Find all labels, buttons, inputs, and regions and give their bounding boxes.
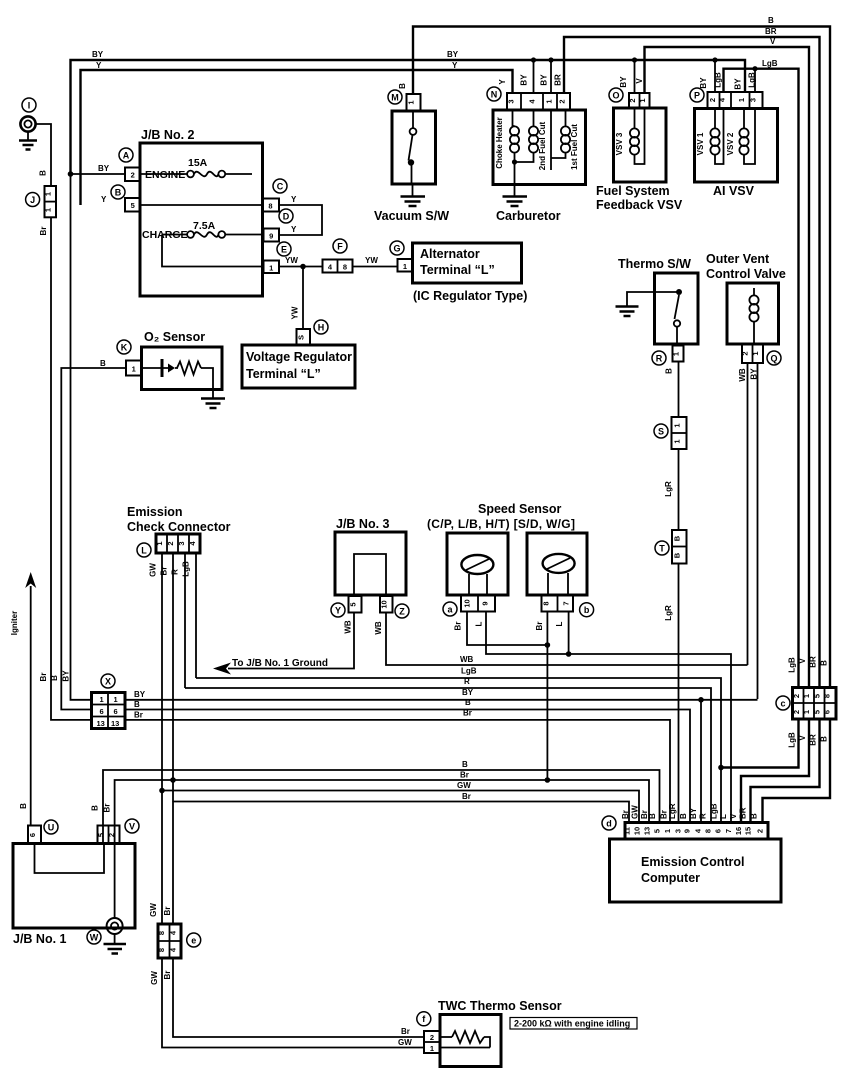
svg-text:15A: 15A bbox=[188, 157, 208, 169]
svg-text:BR: BR bbox=[554, 74, 563, 86]
svg-text:Y: Y bbox=[101, 195, 107, 204]
svg-text:1: 1 bbox=[155, 541, 164, 545]
svg-text:T: T bbox=[659, 543, 665, 553]
svg-text:6: 6 bbox=[714, 829, 723, 833]
svg-text:BY: BY bbox=[447, 50, 459, 59]
svg-text:Fuel System: Fuel System bbox=[596, 184, 670, 198]
svg-text:6: 6 bbox=[28, 833, 37, 837]
svg-text:I: I bbox=[28, 100, 31, 110]
svg-text:WB: WB bbox=[738, 368, 747, 382]
svg-text:8: 8 bbox=[268, 202, 272, 211]
svg-text:L: L bbox=[719, 814, 728, 819]
svg-text:9: 9 bbox=[481, 601, 490, 605]
svg-text:J/B No. 3: J/B No. 3 bbox=[336, 517, 390, 531]
svg-text:Y: Y bbox=[291, 225, 297, 234]
svg-text:VSV 1: VSV 1 bbox=[696, 132, 705, 155]
svg-text:1st Fuel Cut: 1st Fuel Cut bbox=[570, 124, 579, 170]
svg-text:Speed Sensor: Speed Sensor bbox=[478, 502, 561, 516]
svg-text:U: U bbox=[48, 822, 55, 832]
svg-text:Br: Br bbox=[460, 771, 469, 780]
svg-text:5: 5 bbox=[96, 833, 105, 837]
svg-text:10: 10 bbox=[633, 827, 642, 835]
svg-text:13: 13 bbox=[97, 719, 105, 728]
svg-text:d: d bbox=[606, 818, 612, 828]
svg-text:1: 1 bbox=[407, 100, 416, 104]
svg-text:1: 1 bbox=[737, 98, 746, 102]
svg-text:Y: Y bbox=[96, 61, 102, 70]
svg-text:1: 1 bbox=[44, 192, 53, 196]
svg-text:WB: WB bbox=[344, 620, 353, 634]
svg-text:Y: Y bbox=[498, 79, 507, 85]
svg-text:5: 5 bbox=[653, 829, 662, 833]
svg-text:Emission Control: Emission Control bbox=[641, 855, 744, 869]
svg-text:BY: BY bbox=[134, 690, 146, 699]
svg-text:7: 7 bbox=[562, 601, 571, 605]
svg-text:J: J bbox=[30, 195, 35, 205]
svg-text:2: 2 bbox=[131, 171, 135, 180]
svg-text:1: 1 bbox=[673, 439, 682, 443]
svg-text:1: 1 bbox=[100, 695, 104, 704]
svg-text:1: 1 bbox=[269, 264, 273, 273]
svg-text:L: L bbox=[555, 621, 564, 626]
svg-text:8: 8 bbox=[823, 694, 832, 698]
svg-text:V: V bbox=[770, 37, 776, 46]
svg-text:B: B bbox=[91, 805, 100, 811]
svg-text:Choke Heater: Choke Heater bbox=[495, 117, 504, 169]
svg-text:D: D bbox=[283, 211, 290, 221]
svg-text:Terminal “L”: Terminal “L” bbox=[246, 367, 321, 381]
svg-text:GW: GW bbox=[398, 1038, 412, 1047]
svg-text:5: 5 bbox=[349, 602, 358, 606]
svg-text:1: 1 bbox=[672, 352, 681, 356]
svg-text:R: R bbox=[171, 569, 180, 575]
svg-text:BR: BR bbox=[809, 656, 818, 668]
svg-text:2: 2 bbox=[792, 710, 801, 714]
svg-text:5: 5 bbox=[131, 201, 135, 210]
svg-text:BY: BY bbox=[520, 74, 529, 86]
svg-text:2: 2 bbox=[792, 694, 801, 698]
svg-text:B: B bbox=[648, 813, 657, 819]
svg-text:e: e bbox=[191, 935, 196, 945]
svg-text:LgB: LgB bbox=[788, 732, 797, 748]
svg-text:BR: BR bbox=[765, 27, 777, 36]
svg-text:B: B bbox=[750, 813, 759, 819]
svg-text:BY: BY bbox=[98, 164, 110, 173]
svg-text:BY: BY bbox=[699, 77, 708, 89]
svg-text:3: 3 bbox=[674, 829, 683, 833]
svg-text:1: 1 bbox=[114, 695, 118, 704]
svg-text:VSV 2: VSV 2 bbox=[726, 132, 735, 155]
svg-text:M: M bbox=[391, 92, 399, 102]
svg-text:B: B bbox=[679, 813, 688, 819]
svg-text:6: 6 bbox=[114, 707, 118, 716]
svg-text:V: V bbox=[729, 813, 738, 819]
svg-text:1: 1 bbox=[802, 710, 811, 714]
svg-text:V: V bbox=[635, 78, 644, 84]
svg-text:Y: Y bbox=[335, 605, 341, 615]
svg-text:11: 11 bbox=[623, 827, 632, 835]
svg-text:BY: BY bbox=[462, 688, 474, 697]
svg-text:Check Connector: Check Connector bbox=[127, 520, 231, 534]
svg-text:3: 3 bbox=[177, 541, 186, 545]
svg-text:5: 5 bbox=[812, 710, 821, 714]
svg-text:GW: GW bbox=[457, 781, 471, 790]
svg-text:15: 15 bbox=[744, 827, 753, 835]
svg-text:V: V bbox=[129, 821, 135, 831]
svg-text:BY: BY bbox=[689, 807, 698, 819]
svg-text:G: G bbox=[393, 243, 400, 253]
svg-text:(C/P, L/B, H/T) [S/D, W/G]: (C/P, L/B, H/T) [S/D, W/G] bbox=[427, 517, 575, 531]
svg-text:Q: Q bbox=[770, 353, 777, 363]
svg-text:B: B bbox=[665, 368, 674, 374]
svg-text:BY: BY bbox=[619, 76, 628, 88]
svg-text:2nd Fuel Cut: 2nd Fuel Cut bbox=[538, 121, 547, 170]
svg-text:9: 9 bbox=[269, 232, 273, 241]
svg-text:Voltage Regulator: Voltage Regulator bbox=[246, 350, 352, 364]
svg-text:B: B bbox=[820, 736, 829, 742]
svg-text:BY: BY bbox=[734, 78, 743, 90]
svg-text:Br: Br bbox=[463, 709, 472, 718]
svg-text:Feedback VSV: Feedback VSV bbox=[596, 198, 683, 212]
svg-text:Br: Br bbox=[462, 792, 471, 801]
svg-text:2: 2 bbox=[107, 833, 116, 837]
svg-text:10: 10 bbox=[380, 600, 389, 608]
svg-text:S: S bbox=[658, 426, 664, 436]
svg-text:J/B No. 2: J/B No. 2 bbox=[141, 128, 195, 142]
svg-text:R: R bbox=[656, 353, 663, 363]
svg-text:W: W bbox=[90, 932, 99, 942]
svg-text:O₂ Sensor: O₂ Sensor bbox=[144, 330, 205, 344]
svg-text:LgR: LgR bbox=[668, 803, 677, 819]
svg-text:8: 8 bbox=[157, 948, 166, 952]
svg-text:AI VSV: AI VSV bbox=[713, 184, 755, 198]
svg-text:F: F bbox=[337, 241, 343, 251]
svg-text:2: 2 bbox=[708, 98, 717, 102]
svg-text:BY: BY bbox=[92, 50, 104, 59]
svg-text:Carburetor: Carburetor bbox=[496, 209, 561, 223]
svg-text:8: 8 bbox=[157, 931, 166, 935]
svg-text:Emission: Emission bbox=[127, 505, 183, 519]
svg-text:(IC Regulator Type): (IC Regulator Type) bbox=[413, 289, 527, 303]
svg-text:YW: YW bbox=[291, 306, 300, 319]
svg-text:5: 5 bbox=[812, 694, 821, 698]
svg-text:LgR: LgR bbox=[664, 481, 673, 497]
svg-text:GW: GW bbox=[631, 805, 640, 819]
svg-text:TWC Thermo Sensor: TWC Thermo Sensor bbox=[438, 999, 562, 1013]
svg-text:B: B bbox=[398, 83, 407, 89]
svg-text:B: B bbox=[465, 698, 471, 707]
svg-text:1: 1 bbox=[132, 365, 136, 374]
svg-text:3: 3 bbox=[749, 98, 758, 102]
svg-text:BY: BY bbox=[62, 670, 71, 682]
svg-text:2-200 kΩ with engine idling: 2-200 kΩ with engine idling bbox=[514, 1019, 630, 1029]
svg-text:WB: WB bbox=[460, 655, 474, 664]
svg-text:LgB: LgB bbox=[748, 72, 757, 88]
svg-text:1: 1 bbox=[751, 351, 760, 355]
svg-text:LgB: LgB bbox=[461, 667, 477, 676]
svg-text:8: 8 bbox=[542, 601, 551, 605]
svg-text:BY: BY bbox=[540, 74, 549, 86]
svg-text:C: C bbox=[277, 181, 284, 191]
svg-text:Control Valve: Control Valve bbox=[706, 267, 786, 281]
svg-text:GW: GW bbox=[149, 563, 158, 577]
svg-text:GW: GW bbox=[149, 903, 158, 917]
svg-text:LgB: LgB bbox=[714, 72, 723, 88]
svg-text:Alternator: Alternator bbox=[420, 247, 480, 261]
svg-text:LgB: LgB bbox=[182, 561, 191, 577]
svg-text:Br: Br bbox=[535, 622, 544, 631]
svg-text:Z: Z bbox=[399, 606, 405, 616]
svg-text:GW: GW bbox=[150, 971, 159, 985]
svg-text:Br: Br bbox=[621, 810, 630, 819]
svg-text:1: 1 bbox=[545, 99, 554, 103]
svg-text:B: B bbox=[134, 700, 140, 709]
svg-text:L: L bbox=[141, 545, 147, 555]
svg-text:c: c bbox=[780, 698, 785, 708]
svg-text:1: 1 bbox=[673, 423, 682, 427]
svg-text:1: 1 bbox=[663, 829, 672, 833]
svg-text:B: B bbox=[39, 170, 48, 176]
svg-text:2: 2 bbox=[430, 1033, 434, 1042]
svg-text:B: B bbox=[673, 535, 682, 541]
svg-text:Computer: Computer bbox=[641, 871, 700, 885]
svg-text:Br: Br bbox=[39, 673, 48, 682]
svg-text:B: B bbox=[115, 187, 122, 197]
svg-text:H: H bbox=[318, 322, 325, 332]
svg-text:2: 2 bbox=[756, 829, 765, 833]
svg-text:3: 3 bbox=[507, 99, 516, 103]
svg-text:Y: Y bbox=[452, 61, 458, 70]
svg-text:ENGINE: ENGINE bbox=[145, 169, 185, 181]
svg-text:B: B bbox=[673, 552, 682, 558]
svg-text:7: 7 bbox=[724, 829, 733, 833]
svg-text:Igniter: Igniter bbox=[10, 611, 19, 635]
svg-text:E: E bbox=[281, 244, 287, 254]
svg-text:Br: Br bbox=[163, 971, 172, 980]
svg-text:K: K bbox=[121, 342, 128, 352]
svg-text:Y: Y bbox=[291, 195, 297, 204]
svg-text:Br: Br bbox=[163, 907, 172, 916]
svg-text:6: 6 bbox=[100, 707, 104, 716]
svg-text:LgR: LgR bbox=[664, 605, 673, 621]
svg-text:Terminal “L”: Terminal “L” bbox=[420, 263, 495, 277]
svg-text:Br: Br bbox=[401, 1027, 410, 1036]
svg-text:13: 13 bbox=[643, 827, 652, 835]
svg-text:S: S bbox=[297, 335, 306, 340]
svg-text:LgB: LgB bbox=[788, 657, 797, 673]
svg-text:Br: Br bbox=[160, 567, 169, 576]
svg-text:O: O bbox=[612, 90, 619, 100]
svg-text:16: 16 bbox=[734, 827, 743, 835]
svg-text:1: 1 bbox=[430, 1044, 434, 1053]
svg-text:B: B bbox=[768, 16, 774, 25]
svg-text:Br: Br bbox=[39, 227, 48, 236]
svg-text:2: 2 bbox=[166, 541, 175, 545]
svg-text:R: R bbox=[699, 813, 708, 819]
svg-text:8: 8 bbox=[343, 263, 347, 272]
svg-text:6: 6 bbox=[823, 710, 832, 714]
svg-text:V: V bbox=[798, 658, 807, 664]
svg-text:Vacuum S/W: Vacuum S/W bbox=[374, 209, 449, 223]
svg-text:2: 2 bbox=[558, 99, 567, 103]
svg-text:N: N bbox=[491, 89, 498, 99]
svg-text:X: X bbox=[105, 676, 111, 686]
svg-text:L: L bbox=[475, 621, 484, 626]
svg-text:P: P bbox=[694, 90, 700, 100]
svg-text:B: B bbox=[820, 660, 829, 666]
svg-text:Outer Vent: Outer Vent bbox=[706, 252, 770, 266]
svg-text:B: B bbox=[50, 675, 59, 681]
svg-text:YW: YW bbox=[285, 256, 298, 265]
svg-text:13: 13 bbox=[111, 719, 119, 728]
svg-text:Br: Br bbox=[454, 622, 463, 631]
svg-text:b: b bbox=[584, 605, 590, 615]
svg-text:B: B bbox=[462, 760, 468, 769]
svg-text:7.5A: 7.5A bbox=[193, 220, 216, 232]
svg-text:8: 8 bbox=[704, 829, 713, 833]
svg-text:10: 10 bbox=[463, 599, 472, 607]
svg-text:Br: Br bbox=[103, 804, 112, 813]
svg-text:LgB: LgB bbox=[762, 59, 778, 68]
svg-text:1: 1 bbox=[802, 694, 811, 698]
svg-text:Thermo S/W: Thermo S/W bbox=[618, 257, 691, 271]
svg-text:9: 9 bbox=[683, 829, 692, 833]
svg-text:B: B bbox=[19, 803, 28, 809]
svg-text:A: A bbox=[123, 150, 130, 160]
svg-text:J/B No. 1: J/B No. 1 bbox=[13, 932, 67, 946]
svg-text:2: 2 bbox=[741, 351, 750, 355]
svg-text:1: 1 bbox=[44, 208, 53, 212]
svg-text:BR: BR bbox=[739, 807, 748, 819]
svg-text:2: 2 bbox=[628, 98, 637, 102]
svg-text:VSV 3: VSV 3 bbox=[615, 132, 624, 155]
svg-text:WB: WB bbox=[374, 621, 383, 635]
svg-text:LgB: LgB bbox=[710, 803, 719, 819]
svg-text:YW: YW bbox=[365, 256, 378, 265]
svg-text:B: B bbox=[100, 359, 106, 368]
svg-text:To J/B No. 1 Ground: To J/B No. 1 Ground bbox=[232, 658, 328, 669]
svg-text:1: 1 bbox=[638, 98, 647, 102]
svg-text:Br: Br bbox=[134, 711, 143, 720]
svg-text:1: 1 bbox=[403, 262, 407, 271]
